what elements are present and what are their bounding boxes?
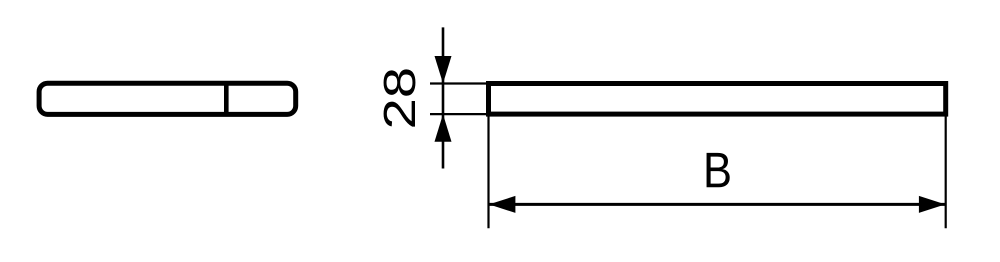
- weld seam divider line: [224, 82, 229, 117]
- dimension 28: arrow up: [435, 114, 452, 142]
- dimension B: arrow right: [919, 196, 945, 213]
- dimension B: dimension line: [489, 203, 945, 206]
- dimension 28: dimension line: [442, 27, 445, 168]
- dimension 28: arrow down: [435, 56, 452, 84]
- dimension B: arrow left: [489, 196, 515, 213]
- dimension B: extension line right: [945, 115, 947, 228]
- dimension 28: extension line top: [430, 82, 489, 84]
- dimension B: extension line left: [487, 115, 489, 228]
- dimension B: label: [707, 153, 730, 187]
- flat bar front view (right figure): [489, 84, 946, 115]
- flat bar top view (left figure): [39, 83, 296, 114]
- dimension 28: extension line bottom: [430, 113, 489, 115]
- dimension 28: label: [384, 69, 416, 126]
